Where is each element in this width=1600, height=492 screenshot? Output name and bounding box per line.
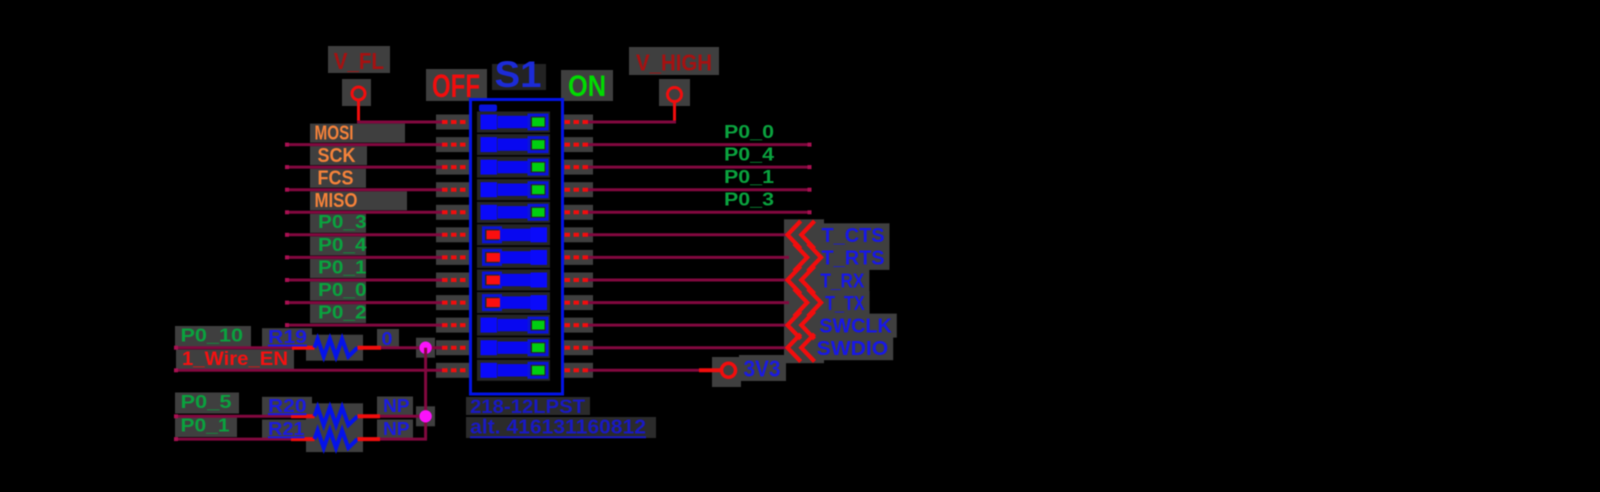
label 3V3 bbox=[744, 356, 781, 382]
wire P0_1 to S1 pin 8 bbox=[285, 278, 442, 282]
testpoint V_FL bbox=[352, 87, 365, 123]
junction B bbox=[419, 410, 431, 422]
svg-text:MOSI: MOSI bbox=[315, 122, 354, 144]
switch S1 position 7 pins bbox=[442, 255, 588, 259]
svg-text:MISO: MISO bbox=[315, 190, 358, 212]
switch S1 marking bbox=[479, 105, 497, 112]
net label FCS (left) bbox=[318, 167, 354, 189]
svg-text:NP: NP bbox=[383, 419, 410, 439]
svg-text:P0_4: P0_4 bbox=[724, 144, 775, 165]
net label P0_0 (left) bbox=[318, 279, 367, 300]
net label P0_2 (left) bbox=[318, 302, 367, 323]
svg-text:P0_1: P0_1 bbox=[181, 414, 230, 435]
net label T_RX bbox=[820, 269, 864, 292]
switch S1 body bbox=[471, 100, 563, 395]
switch S1 position 6 pins bbox=[442, 233, 588, 237]
switch S1 position 9 pins bbox=[442, 301, 588, 305]
net label P0_1 (left) bbox=[318, 256, 367, 277]
wire S1 to SWCLK bbox=[586, 324, 789, 327]
net label T_TX bbox=[825, 292, 865, 315]
label ON bbox=[568, 70, 606, 103]
svg-text:P0_4: P0_4 bbox=[318, 234, 367, 255]
alt part number bbox=[470, 417, 646, 439]
label OFF bbox=[432, 68, 480, 104]
svg-text:R20: R20 bbox=[268, 396, 307, 416]
power connector 3V3 bbox=[699, 363, 736, 377]
resistor R21 bbox=[291, 430, 380, 448]
wire SCK to S1 pin 3 bbox=[285, 165, 442, 169]
designator R21 bbox=[268, 419, 305, 439]
net label P0_0 (right) bbox=[724, 121, 774, 142]
wire R21 to vertical net bbox=[380, 438, 427, 441]
net label T_RTS bbox=[822, 247, 885, 270]
svg-text:P0_0: P0_0 bbox=[724, 121, 774, 142]
label V_HIGH bbox=[636, 50, 712, 76]
wire P0_0 to S1 pin 9 bbox=[285, 301, 442, 305]
svg-text:R21: R21 bbox=[268, 419, 305, 439]
svg-text:T_RX: T_RX bbox=[820, 269, 864, 292]
value 0 (R19) bbox=[382, 329, 393, 349]
svg-text:SWDIO: SWDIO bbox=[817, 337, 889, 360]
wire R19 to junction bbox=[381, 346, 442, 349]
svg-text:T_CTS: T_CTS bbox=[822, 224, 885, 247]
svg-text:218-12LPST: 218-12LPST bbox=[470, 397, 585, 418]
switch S1 position 4 pins bbox=[442, 188, 588, 192]
svg-text:P0_3: P0_3 bbox=[318, 211, 367, 232]
switch S1 position 3 slider (ON) bbox=[481, 160, 548, 175]
off-page connector T_RX bbox=[788, 266, 815, 294]
net label SWDIO bbox=[817, 337, 889, 360]
wire 1_Wire_EN to S1 pin 12 bbox=[174, 368, 442, 372]
svg-text:1_Wire_EN: 1_Wire_EN bbox=[182, 349, 288, 370]
resistor R20 bbox=[291, 408, 380, 426]
svg-text:NP: NP bbox=[383, 396, 410, 416]
switch S1 position 5 pins bbox=[442, 210, 588, 214]
net label P0_5 bbox=[181, 391, 232, 412]
net label T_CTS bbox=[822, 224, 885, 247]
net label P0_3 (right) bbox=[724, 189, 774, 210]
svg-text:ON: ON bbox=[568, 70, 606, 103]
svg-text:P0_5: P0_5 bbox=[181, 391, 232, 412]
svg-text:R19: R19 bbox=[268, 327, 307, 347]
wire S1 to P0_3 (right) bbox=[586, 210, 812, 214]
value NP (R21) bbox=[383, 419, 410, 439]
net label P0_3 (left) bbox=[318, 211, 367, 232]
designator S1 bbox=[495, 54, 542, 95]
switch S1 position 7 slider (OFF) bbox=[484, 250, 548, 265]
switch S1 position 9 slider (OFF) bbox=[484, 295, 548, 310]
wire V_FL to S1 pin 1 bbox=[357, 121, 442, 124]
switch S1 position 2 slider (ON) bbox=[481, 137, 548, 152]
svg-text:V_HIGH: V_HIGH bbox=[636, 50, 712, 76]
svg-text:P0_2: P0_2 bbox=[318, 302, 367, 323]
svg-text:P0_3: P0_3 bbox=[724, 189, 774, 210]
svg-text:V_FL: V_FL bbox=[334, 48, 384, 74]
svg-text:T_TX: T_TX bbox=[825, 292, 865, 315]
svg-text:SWCLK: SWCLK bbox=[819, 314, 892, 337]
wire S1 to T_RX bbox=[586, 279, 789, 282]
wire P0_2 to S1 pin 10 bbox=[285, 323, 442, 327]
off-page connector T_TX bbox=[794, 289, 821, 317]
switch S1 position 8 pins bbox=[442, 278, 588, 282]
net label P0_1 (bottom) bbox=[181, 414, 230, 435]
off-page connector SWCLK bbox=[788, 311, 815, 339]
wire S1 to T_CTS bbox=[586, 233, 789, 236]
wire P0_10 to R19 bbox=[174, 346, 293, 350]
off-page connector SWDIO bbox=[788, 334, 815, 362]
wire S1 to T_TX bbox=[586, 301, 789, 304]
wire P0_4 to S1 pin 7 bbox=[285, 255, 442, 259]
value NP (R20) bbox=[383, 396, 410, 416]
svg-text:3V3: 3V3 bbox=[744, 356, 781, 382]
net label P0_10 bbox=[181, 324, 244, 345]
wire MOSI to S1 pin 2 bbox=[285, 143, 442, 147]
part number 218-12LPST bbox=[470, 397, 585, 418]
net label P0_4 (left) bbox=[318, 234, 367, 255]
wire P0_1 to R21 bbox=[174, 437, 292, 441]
wire S1 to P0_1 (right) bbox=[586, 188, 812, 192]
designator R20 bbox=[268, 396, 307, 416]
switch S1 position 12 slider (ON) bbox=[481, 363, 548, 378]
wire S1 to SWDIO bbox=[586, 346, 789, 349]
net label MOSI (left) bbox=[315, 122, 354, 144]
junction A bbox=[419, 342, 431, 354]
wire junction A to junction B bbox=[424, 348, 427, 439]
testpoint V_HIGH bbox=[668, 88, 682, 124]
wire P0_5 to R20 bbox=[174, 414, 292, 418]
switch S1 position 2 pins bbox=[442, 143, 588, 147]
net label 1_Wire_EN bbox=[182, 349, 288, 370]
svg-text:0: 0 bbox=[382, 329, 393, 349]
svg-text:P0_10: P0_10 bbox=[181, 324, 244, 345]
svg-text:alt. 416131160812: alt. 416131160812 bbox=[470, 417, 646, 439]
switch S1 position 4 slider (ON) bbox=[481, 182, 548, 197]
switch S1 position 1 slider (ON) bbox=[481, 115, 548, 130]
off-page connector T_RTS bbox=[794, 244, 821, 272]
switch S1 position 10 slider (ON) bbox=[481, 318, 548, 333]
net label P0_4 (right) bbox=[724, 144, 775, 165]
switch S1 position 5 slider (ON) bbox=[481, 205, 548, 220]
wire S1 to P0_4 (right) bbox=[586, 165, 812, 169]
wire S1 pin 13 to 3V3 bbox=[586, 369, 699, 372]
wire S1 pin 24 to V_HIGH bbox=[586, 121, 676, 124]
net label SCK (left) bbox=[318, 145, 356, 167]
wire S1 to P0_0 (right) bbox=[586, 143, 812, 147]
wire P0_3 to S1 pin 6 bbox=[285, 233, 442, 237]
label V_FL bbox=[334, 48, 384, 74]
switch S1 position 10 pins bbox=[442, 323, 588, 327]
net label SWCLK bbox=[819, 314, 892, 337]
svg-text:S1: S1 bbox=[495, 54, 542, 95]
svg-text:P0_0: P0_0 bbox=[318, 279, 367, 300]
resistor R19 bbox=[292, 339, 381, 357]
wire R20 to junction B bbox=[380, 415, 427, 418]
wire FCS to S1 pin 4 bbox=[285, 188, 442, 192]
net label MISO (left) bbox=[315, 190, 358, 212]
designator R19 bbox=[268, 327, 307, 347]
switch S1 position 6 slider (OFF) bbox=[484, 227, 548, 242]
wire S1 to T_RTS bbox=[586, 256, 789, 259]
net label P0_1 (right) bbox=[724, 166, 774, 187]
switch S1 position 12 pins bbox=[442, 368, 588, 372]
switch S1 position 1 pins bbox=[442, 120, 588, 124]
switch S1 position 11 pins bbox=[442, 346, 588, 350]
switch S1 position 3 pins bbox=[442, 165, 588, 169]
wire MISO to S1 pin 5 bbox=[285, 210, 442, 214]
svg-text:T_RTS: T_RTS bbox=[822, 247, 885, 270]
svg-text:P0_1: P0_1 bbox=[724, 166, 774, 187]
switch S1 position 8 slider (OFF) bbox=[484, 273, 548, 288]
off-page connector T_CTS bbox=[788, 221, 815, 249]
svg-text:P0_1: P0_1 bbox=[318, 256, 367, 277]
svg-text:FCS: FCS bbox=[318, 167, 354, 189]
switch S1 position 11 slider (ON) bbox=[481, 340, 548, 355]
svg-text:SCK: SCK bbox=[318, 145, 356, 167]
